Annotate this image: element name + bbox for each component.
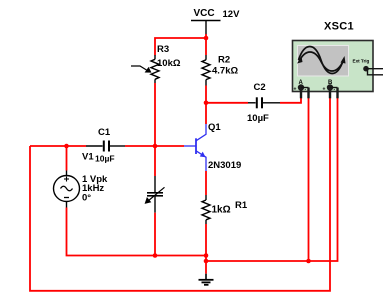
- svg-text:2N3019: 2N3019: [208, 160, 241, 171]
- variable capacitor: [145, 176, 165, 213]
- wire left loop top: [30, 145, 67, 147]
- wire R3 bottom to variable capacitor: [154, 83, 156, 176]
- capacitor C2: [248, 97, 280, 108]
- node junction at VCC rail: [204, 36, 209, 41]
- node varcap bottom junction: [153, 253, 158, 258]
- svg-text:12V: 12V: [223, 9, 241, 20]
- wire R1 to ground: [205, 224, 207, 274]
- resistor R2: [202, 55, 210, 86]
- wire VCC rail down to R2: [205, 38, 207, 55]
- node ground-right junction: [204, 259, 209, 264]
- svg-text:0°: 0°: [82, 193, 91, 204]
- wire VCC junction to R3 top: [155, 34, 206, 55]
- source V1: [54, 146, 80, 208]
- node ground-left junction: [204, 253, 209, 258]
- wire V1 node to C1: [67, 145, 87, 147]
- oscilloscope XSC1: [293, 41, 374, 92]
- node V1 top junction: [64, 144, 69, 149]
- wire ground rail to scope B-: [206, 98, 338, 261]
- resistor R3 (variable): [131, 55, 159, 83]
- resistor R1: [202, 171, 210, 224]
- wire C2 to scope input A: [280, 98, 301, 103]
- terminal B: [323, 84, 338, 98]
- svg-text:+: +: [323, 87, 326, 93]
- svg-text:C1: C1: [98, 127, 111, 138]
- wire R2 bottom to collector node: [205, 86, 207, 125]
- svg-text:10kΩ: 10kΩ: [157, 58, 181, 69]
- svg-text:+: +: [294, 87, 297, 93]
- svg-text:VCC: VCC: [194, 8, 215, 19]
- svg-text:V1: V1: [82, 152, 94, 163]
- svg-text:Ext Trig: Ext Trig: [353, 59, 370, 64]
- svg-text:1kΩ: 1kΩ: [212, 205, 231, 216]
- svg-text:C2: C2: [254, 82, 266, 93]
- capacitor C1: [86, 141, 125, 152]
- wire varcap to bottom rail: [154, 213, 156, 256]
- transistor Q1: [184, 124, 206, 171]
- wire collector node to C2: [206, 102, 248, 104]
- wire scope A- to ground rail: [308, 98, 310, 261]
- svg-text:10µF: 10µF: [95, 154, 115, 164]
- svg-text:10µF: 10µF: [247, 113, 269, 124]
- VCC power symbol: [191, 21, 221, 35]
- wire V1 bottom to ground rail: [67, 208, 207, 256]
- ground: [199, 274, 214, 285]
- node base junction: [153, 144, 158, 149]
- svg-text:R2: R2: [218, 55, 230, 66]
- wire C1 to base node: [125, 145, 184, 147]
- wire left outer loop: [30, 98, 330, 291]
- node collector junction: [204, 101, 209, 106]
- svg-text:R1: R1: [235, 200, 248, 211]
- node A- junction: [306, 259, 311, 264]
- svg-text:4.7kΩ: 4.7kΩ: [212, 66, 238, 77]
- ext trig terminal: [363, 66, 383, 75]
- svg-text:Q1: Q1: [208, 122, 221, 133]
- terminal A: [294, 84, 309, 98]
- svg-text:XSC1: XSC1: [324, 21, 354, 33]
- svg-text:R3: R3: [157, 44, 169, 55]
